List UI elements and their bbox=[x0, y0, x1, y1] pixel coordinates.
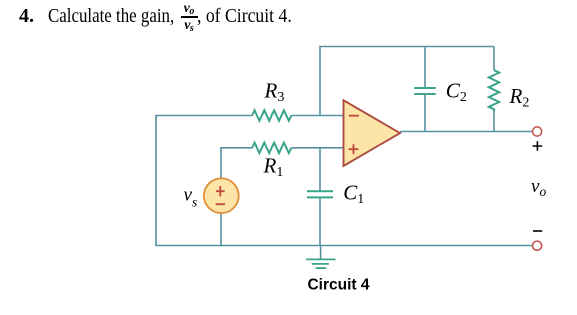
wire: feedback vertical bbox=[319, 47, 321, 116]
wire: R1 right lead to non-inverting input bbox=[291, 147, 343, 149]
svg-text:vs: vs bbox=[184, 185, 198, 210]
wire: C2 top lead bbox=[424, 47, 426, 89]
op-amp U1 triangle bbox=[344, 100, 401, 166]
ground bar 2 bbox=[312, 263, 329, 265]
svg-text:R3: R3 bbox=[264, 79, 285, 106]
svg-text:vo: vo bbox=[531, 176, 546, 199]
capacitor C2 top plate bbox=[414, 87, 435, 89]
svg-text:C1: C1 bbox=[343, 181, 364, 208]
wire: vs top lead and corner to R1 bbox=[221, 148, 252, 179]
output terminal bottom bbox=[533, 241, 542, 250]
fraction vo/vs bbox=[181, 2, 198, 34]
wire: bottom rail bbox=[155, 245, 532, 247]
svg-text:C2: C2 bbox=[446, 79, 467, 106]
resistor R2 zigzag bbox=[489, 70, 499, 111]
ground bar 3 bbox=[316, 267, 327, 269]
resistor R3 zigzag bbox=[252, 110, 291, 121]
wire: R2 top lead bbox=[493, 47, 495, 71]
voltage source vs circle bbox=[204, 178, 239, 213]
wire: C1 bottom lead bbox=[319, 197, 321, 245]
wire: ground stem bbox=[320, 246, 322, 260]
wire: R2 bottom lead bbox=[493, 111, 495, 131]
resistor R1 zigzag bbox=[252, 143, 291, 154]
ground bar 1 bbox=[306, 258, 336, 260]
title text 2 bbox=[197, 6, 292, 26]
vs minus sign bbox=[216, 203, 225, 205]
capacitor C1 bottom plate bbox=[307, 196, 333, 198]
wire: top feedback rail bbox=[319, 46, 494, 48]
vs plus sign bbox=[216, 186, 225, 196]
svg-text:Circuit 4: Circuit 4 bbox=[307, 277, 369, 294]
output terminal top bbox=[533, 127, 542, 136]
title text bbox=[19, 6, 34, 26]
wire: vs bottom lead bbox=[220, 214, 222, 247]
capacitor C1 top plate bbox=[307, 190, 333, 192]
capacitor C2 bottom plate bbox=[414, 93, 435, 95]
op-amp plus sign bbox=[349, 144, 359, 154]
op-amp minus sign bbox=[349, 115, 359, 117]
output plus sign bbox=[533, 141, 543, 151]
wire: R3 right lead to inverting input bbox=[291, 115, 343, 117]
wire: C1 top lead bbox=[319, 148, 321, 192]
wire: C2 bottom lead bbox=[424, 94, 426, 132]
svg-text:R1: R1 bbox=[263, 153, 284, 180]
wire: R3 left lead bbox=[155, 115, 252, 117]
output minus sign bbox=[533, 230, 542, 232]
wire: output rail from op-amp to terminal bbox=[400, 131, 532, 133]
svg-text:R2: R2 bbox=[509, 84, 530, 111]
wire: left vertical from R3 row to bottom rail bbox=[155, 116, 157, 246]
